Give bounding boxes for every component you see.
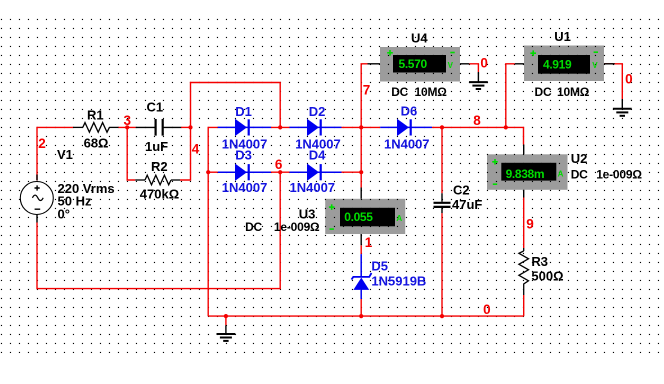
wire bottom row D3 right to D4 left (node 6) xyxy=(271,171,290,173)
junction U1 tap node 8 xyxy=(504,125,508,129)
svg-text:DC: DC xyxy=(571,167,588,181)
wire D5 bottom to ground rail xyxy=(360,299,362,316)
wire top row D1 right to D2 left (node 4) xyxy=(271,126,290,128)
svg-text:C2: C2 xyxy=(453,183,470,198)
wire U1 right to ground 0 xyxy=(604,64,622,99)
svg-text:DC: DC xyxy=(391,85,408,99)
wire R1 to C1 through node 3 xyxy=(119,126,136,128)
junction ground tap xyxy=(224,314,228,318)
svg-text:V: V xyxy=(592,61,598,70)
wire node 4 up and over to D1-D2 midpoint xyxy=(191,83,281,128)
svg-text:R2: R2 xyxy=(151,159,168,174)
svg-text:DC: DC xyxy=(535,85,552,99)
source V1 xyxy=(20,175,53,223)
svg-text:47uF: 47uF xyxy=(452,197,482,212)
wire C2 top red xyxy=(441,127,443,193)
wire ground stub G1 xyxy=(225,316,227,325)
multimeter U1 body xyxy=(524,46,604,82)
svg-text:5.570: 5.570 xyxy=(399,57,428,71)
svg-text:500Ω: 500Ω xyxy=(531,268,563,283)
wire ground rail bottom (node 0) xyxy=(208,315,524,317)
svg-text:1N4007: 1N4007 xyxy=(384,136,430,151)
svg-text:D2: D2 xyxy=(309,104,326,119)
svg-text:U4: U4 xyxy=(411,31,428,46)
junction bridge right top xyxy=(359,125,363,129)
svg-text:1e-009Ω: 1e-009Ω xyxy=(596,167,642,181)
svg-text:V: V xyxy=(448,61,454,70)
junction node 4 xyxy=(188,125,192,129)
svg-text:10MΩ: 10MΩ xyxy=(415,85,448,99)
svg-text:1N5919B: 1N5919B xyxy=(371,274,426,289)
svg-text:470kΩ: 470kΩ xyxy=(140,187,179,202)
multimeter U1 leads and display xyxy=(515,50,615,73)
svg-text:U1: U1 xyxy=(554,29,571,44)
svg-text:6: 6 xyxy=(275,157,283,172)
svg-text:R1: R1 xyxy=(87,107,104,122)
junction D3 left xyxy=(206,170,210,174)
svg-text:D6: D6 xyxy=(401,103,418,118)
wire node 8 from D6 to corner above U2 xyxy=(432,127,524,144)
multimeter U4 leads and display xyxy=(368,50,470,73)
svg-text:0: 0 xyxy=(480,56,488,71)
capacitor C1 xyxy=(136,119,182,136)
ground U1 xyxy=(613,99,632,116)
capacitor C2 xyxy=(434,193,451,213)
wire U3 bottom red stub (node 1) xyxy=(360,245,362,254)
svg-text:1N4007: 1N4007 xyxy=(222,180,268,195)
ground main xyxy=(217,325,236,341)
svg-text:9.838m: 9.838m xyxy=(506,167,545,181)
wire node 6 vertical down from D3-D4 midpoint xyxy=(37,172,280,288)
wire bottom row D3 left lead xyxy=(208,171,218,173)
svg-text:0.055: 0.055 xyxy=(344,210,373,224)
svg-text:D4: D4 xyxy=(309,147,326,162)
wire ground rail left vertical x=208 xyxy=(208,127,218,316)
diode D2 xyxy=(290,119,342,136)
resistor R2 xyxy=(135,175,180,185)
svg-text:D1: D1 xyxy=(235,104,252,119)
wire C1 right to node 4 junction xyxy=(181,126,190,128)
svg-text:A: A xyxy=(396,214,402,223)
svg-text:1uF: 1uF xyxy=(145,139,168,154)
svg-text:9: 9 xyxy=(526,217,534,232)
wire bridge right vertical x=361 node 7 up to U4 xyxy=(361,64,367,188)
junction D5 bottom xyxy=(359,314,363,318)
junction node 3 xyxy=(125,125,129,129)
junction bridge right bottom xyxy=(359,170,363,174)
svg-text:10MΩ: 10MΩ xyxy=(557,85,590,99)
wire node 3 down to R2 left xyxy=(127,127,135,180)
resistor R1 xyxy=(73,123,119,133)
svg-text:4: 4 xyxy=(192,141,200,156)
svg-text:1N4007: 1N4007 xyxy=(290,180,336,195)
svg-text:D5: D5 xyxy=(371,259,388,274)
svg-text:0°: 0° xyxy=(58,207,70,222)
svg-text:7: 7 xyxy=(363,83,371,98)
wire U1 left down to node 8 xyxy=(506,64,515,128)
svg-text:U2: U2 xyxy=(571,151,588,166)
multimeter U3 leads and display xyxy=(329,188,403,246)
diode D6 xyxy=(380,119,432,136)
svg-text:1e-009Ω: 1e-009Ω xyxy=(274,220,320,234)
wire top row D2 right to node 7/8 vertical xyxy=(342,126,381,128)
svg-text:1: 1 xyxy=(365,235,373,250)
svg-text:3: 3 xyxy=(124,113,132,128)
svg-text:68Ω: 68Ω xyxy=(84,135,109,150)
svg-text:V1: V1 xyxy=(57,147,73,162)
multimeter U3 body xyxy=(325,199,405,234)
wire V1 top to R1 (node 2) xyxy=(37,127,73,180)
svg-text:DC: DC xyxy=(245,220,262,234)
junction D3-D4 midpoint node 6 xyxy=(278,170,282,174)
resistor R3 xyxy=(519,248,529,295)
diode D1 xyxy=(218,119,271,136)
svg-text:D3: D3 xyxy=(235,147,252,162)
multimeter U4 body xyxy=(380,47,460,82)
wire R3 bottom to ground rail xyxy=(523,295,525,316)
wire C2 bottom red xyxy=(441,213,443,316)
svg-text:0: 0 xyxy=(625,72,633,87)
diode D4 xyxy=(290,164,342,181)
svg-text:A: A xyxy=(558,169,564,178)
wire bottom row D4 right to bridge right vertical xyxy=(342,171,362,173)
svg-text:0: 0 xyxy=(483,302,491,317)
svg-text:C1: C1 xyxy=(147,100,164,115)
junction D1-D2 midpoint xyxy=(278,125,282,129)
junction C2 bottom xyxy=(440,314,444,318)
diode D3 xyxy=(218,164,271,181)
multimeter U2 leads and display xyxy=(492,145,563,198)
svg-text:4.919: 4.919 xyxy=(543,57,572,71)
multimeter U2 body xyxy=(487,154,568,190)
zener diode D5 xyxy=(352,254,372,299)
wire U4 right to ground 0 xyxy=(469,64,478,72)
wire R2 right up to node 4 xyxy=(180,127,191,180)
svg-text:R3: R3 xyxy=(531,254,548,269)
wire U2 bottom to R3 (node 9) xyxy=(523,198,525,249)
svg-text:2: 2 xyxy=(38,136,46,151)
ground U4 xyxy=(469,72,488,89)
svg-text:8: 8 xyxy=(473,113,481,128)
junction C2 top xyxy=(440,125,444,129)
